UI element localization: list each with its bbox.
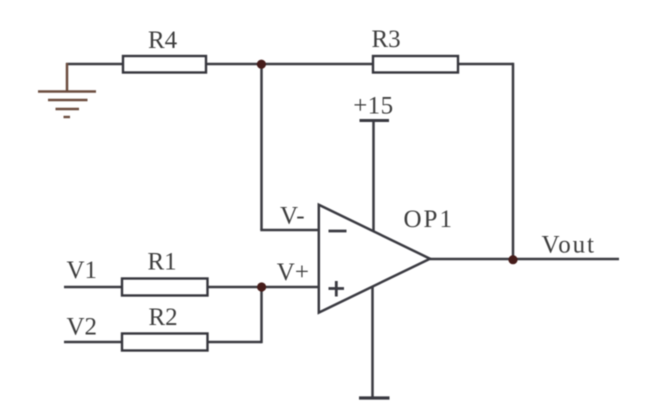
svg-text:V+: V+ [277,259,309,286]
resistor R2 [122,334,208,351]
op-amp minus sign [329,230,347,233]
node junction at Vout [508,255,517,264]
wire R4 to R3 [206,63,373,66]
svg-text:R2: R2 [149,304,178,331]
wire inverting node vertical [260,64,263,230]
op-amp U1 triangle [319,205,430,313]
power bar bottom [359,396,390,399]
wire to V- input [260,229,319,232]
svg-text:R4: R4 [148,27,178,54]
wire ground to R4 [66,63,123,66]
wire negative supply stem [371,287,374,398]
wire R3 to right corner [458,63,513,66]
resistor R4 [123,56,206,73]
wire V2 to R2 [64,341,122,344]
node junction at R4/R3 [257,60,266,69]
resistor R1 [122,279,208,296]
wire R1 to V+ input [208,286,319,289]
svg-text:V-: V- [280,203,305,230]
wire riser V2 node up to V+ node [260,287,263,343]
wire output [430,258,619,261]
op-amp plus sign [329,281,345,297]
svg-text:R3: R3 [372,26,401,53]
svg-text:OP1: OP1 [404,206,454,233]
resistor R3 [373,56,458,73]
svg-text:Vout: Vout [542,231,596,258]
power bar +15 [360,119,390,122]
wire R2 to vertical riser [208,341,262,344]
wire V1 to R1 [64,286,122,289]
wire +15 stem [372,121,375,232]
svg-text:V2: V2 [67,314,98,341]
wire right vertical down to output node [512,63,515,259]
svg-text:V1: V1 [67,257,98,284]
node junction at V+ [257,282,266,291]
svg-text:+15: +15 [353,93,393,120]
svg-text:R1: R1 [148,249,177,276]
ground [38,63,96,117]
